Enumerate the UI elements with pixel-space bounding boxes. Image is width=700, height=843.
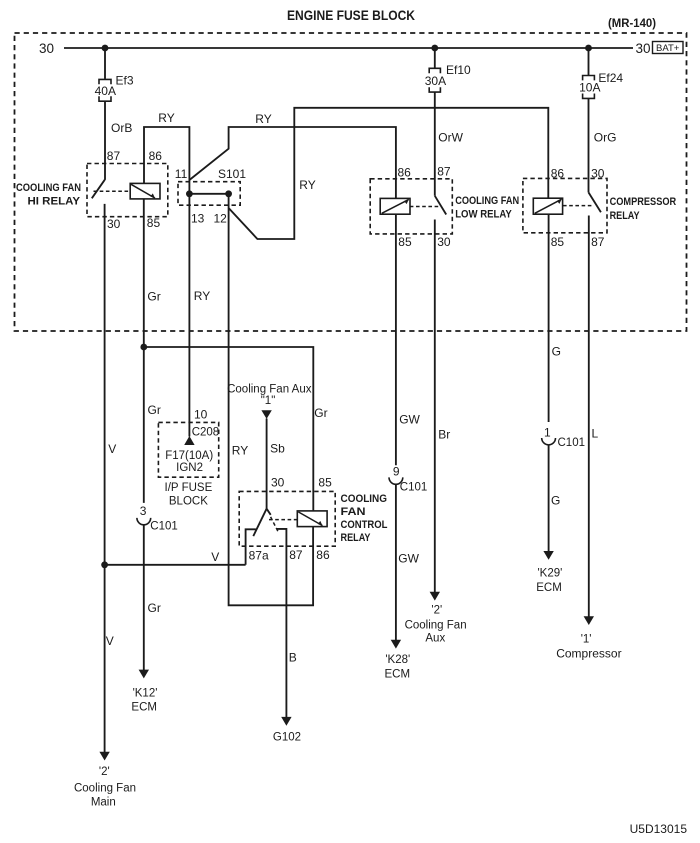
svg-text:RY: RY <box>158 111 174 125</box>
svg-text:'K29': 'K29' <box>537 567 562 579</box>
svg-text:10A: 10A <box>579 81 600 95</box>
svg-text:RY: RY <box>232 444 248 458</box>
svg-text:Cooling Fan: Cooling Fan <box>74 782 136 794</box>
svg-text:C208: C208 <box>192 426 220 438</box>
svg-text:G102: G102 <box>273 731 301 743</box>
svg-text:IGN2: IGN2 <box>176 462 203 474</box>
svg-text:10: 10 <box>194 407 208 421</box>
svg-text:'2': '2' <box>431 604 442 616</box>
svg-text:OrW: OrW <box>438 131 463 145</box>
svg-text:9: 9 <box>393 465 400 479</box>
svg-text:L: L <box>592 427 599 441</box>
svg-text:OrG: OrG <box>594 131 617 145</box>
svg-text:Gr: Gr <box>148 601 161 615</box>
svg-text:COOLING FAN: COOLING FAN <box>16 182 81 194</box>
svg-text:30A: 30A <box>425 74 446 88</box>
svg-text:Main: Main <box>91 796 116 808</box>
svg-text:RY: RY <box>299 178 315 192</box>
svg-text:U5D13015: U5D13015 <box>630 822 688 836</box>
svg-text:FAN: FAN <box>341 506 366 518</box>
svg-text:LOW RELAY: LOW RELAY <box>455 209 512 221</box>
svg-text:HI RELAY: HI RELAY <box>28 195 81 207</box>
svg-text:Gr: Gr <box>148 403 161 417</box>
svg-text:Compressor: Compressor <box>556 646 621 660</box>
svg-text:30: 30 <box>437 235 451 249</box>
svg-text:BAT+: BAT+ <box>656 43 680 54</box>
svg-text:COOLING FAN: COOLING FAN <box>455 195 519 207</box>
svg-text:C101: C101 <box>400 481 428 493</box>
svg-text:COOLING: COOLING <box>341 493 388 505</box>
svg-text:86: 86 <box>149 149 163 163</box>
svg-text:87: 87 <box>591 235 605 249</box>
svg-text:'K28': 'K28' <box>385 654 410 666</box>
svg-text:ENGINE FUSE BLOCK: ENGINE FUSE BLOCK <box>287 7 415 23</box>
svg-text:87: 87 <box>107 149 121 163</box>
svg-text:BLOCK: BLOCK <box>169 495 208 507</box>
svg-text:30: 30 <box>271 475 285 489</box>
svg-text:B: B <box>289 651 297 665</box>
svg-text:86: 86 <box>316 548 330 562</box>
svg-text:Gr: Gr <box>314 406 327 420</box>
svg-text:COMPRESSOR: COMPRESSOR <box>610 196 677 208</box>
svg-text:13: 13 <box>191 211 205 225</box>
svg-text:OrB: OrB <box>111 121 132 135</box>
svg-text:30: 30 <box>635 41 650 56</box>
svg-text:40A: 40A <box>95 84 116 98</box>
svg-text:Sb: Sb <box>270 441 285 455</box>
svg-text:'1': '1' <box>581 634 592 646</box>
svg-text:C101: C101 <box>558 437 586 449</box>
svg-text:G: G <box>552 345 561 359</box>
svg-text:V: V <box>106 634 114 648</box>
svg-text:GW: GW <box>399 412 420 426</box>
svg-text:Ef3: Ef3 <box>116 74 134 88</box>
svg-text:(MR-140): (MR-140) <box>608 18 656 30</box>
svg-text:S101: S101 <box>218 167 246 181</box>
svg-text:GW: GW <box>398 551 419 565</box>
svg-text:86: 86 <box>551 167 565 181</box>
svg-text:3: 3 <box>140 504 147 518</box>
svg-text:12: 12 <box>214 211 228 225</box>
svg-text:C101: C101 <box>150 520 178 532</box>
svg-text:ECM: ECM <box>385 668 411 680</box>
svg-text:85: 85 <box>398 235 412 249</box>
svg-text:1: 1 <box>544 425 551 439</box>
svg-text:30: 30 <box>107 217 121 231</box>
svg-text:RELAY: RELAY <box>341 532 372 544</box>
svg-text:Gr: Gr <box>147 290 160 304</box>
svg-text:87: 87 <box>289 548 303 562</box>
svg-text:RY: RY <box>255 112 271 126</box>
svg-text:"1": "1" <box>261 395 276 407</box>
svg-text:85: 85 <box>318 475 332 489</box>
svg-text:Ef10: Ef10 <box>446 63 471 77</box>
svg-text:I/P FUSE: I/P FUSE <box>165 482 213 494</box>
svg-text:V: V <box>108 442 116 456</box>
svg-text:V: V <box>211 550 219 564</box>
svg-text:Cooling Fan: Cooling Fan <box>405 619 467 631</box>
svg-text:G: G <box>551 493 560 507</box>
svg-text:Cooling Fan Aux: Cooling Fan Aux <box>227 383 312 395</box>
svg-text:ECM: ECM <box>536 582 562 594</box>
svg-text:RELAY: RELAY <box>610 210 641 222</box>
svg-text:Br: Br <box>438 428 450 442</box>
svg-text:'2': '2' <box>99 766 110 778</box>
svg-text:87: 87 <box>437 165 451 179</box>
svg-text:F17(10A): F17(10A) <box>165 450 213 462</box>
svg-text:30: 30 <box>591 167 605 181</box>
svg-text:CONTROL: CONTROL <box>341 519 388 531</box>
svg-text:86: 86 <box>398 165 412 179</box>
svg-text:'K12': 'K12' <box>133 687 158 699</box>
svg-text:Ef24: Ef24 <box>598 71 623 85</box>
svg-text:85: 85 <box>147 216 161 230</box>
svg-text:11: 11 <box>175 167 188 181</box>
svg-text:30: 30 <box>39 41 54 56</box>
svg-text:ECM: ECM <box>131 701 157 713</box>
svg-text:85: 85 <box>551 235 565 249</box>
svg-text:87a: 87a <box>249 549 269 563</box>
svg-text:Aux: Aux <box>425 633 445 645</box>
svg-text:RY: RY <box>194 289 210 303</box>
